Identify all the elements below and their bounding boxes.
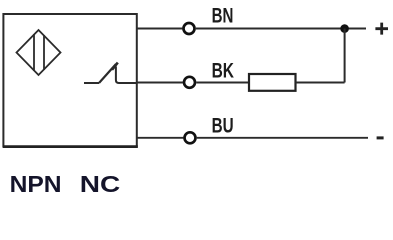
svg-text:BU: BU [212, 114, 234, 137]
wire BU from box to terminal [137, 137, 183, 139]
wire resistor to vertical riser [296, 82, 345, 84]
wire BN from box to terminal [137, 28, 182, 30]
junction node dot [340, 24, 349, 33]
svg-text:NPN: NPN [10, 171, 62, 197]
wire BK from box to terminal [137, 82, 183, 84]
minus sign [377, 136, 384, 139]
NC switch lever tip tick [112, 63, 118, 70]
sensor body box bottom edge (thicker) [3, 145, 138, 148]
vertical riser wire to junction [344, 29, 346, 83]
diamond inner left chord [33, 34, 35, 71]
diamond inner right chord [43, 35, 45, 70]
svg-text:NC: NC [80, 171, 121, 197]
terminal circle BN [184, 23, 195, 34]
terminal circle BK [184, 77, 195, 88]
load resistor [249, 74, 296, 91]
wire BK terminal to resistor [196, 82, 249, 84]
NC switch contact left lead [84, 82, 99, 84]
NC switch lever [99, 64, 116, 83]
wire BU to minus [197, 137, 368, 139]
proximity sensor diamond symbol [17, 30, 61, 75]
svg-text:BK: BK [212, 59, 234, 82]
sensor body box [3, 14, 136, 147]
plus sign [375, 23, 388, 35]
NC switch fixed contact vertical + right lead [116, 67, 136, 84]
terminal circle BU [185, 132, 196, 143]
svg-text:BN: BN [212, 4, 234, 27]
wire BN from terminal to + [196, 28, 366, 30]
